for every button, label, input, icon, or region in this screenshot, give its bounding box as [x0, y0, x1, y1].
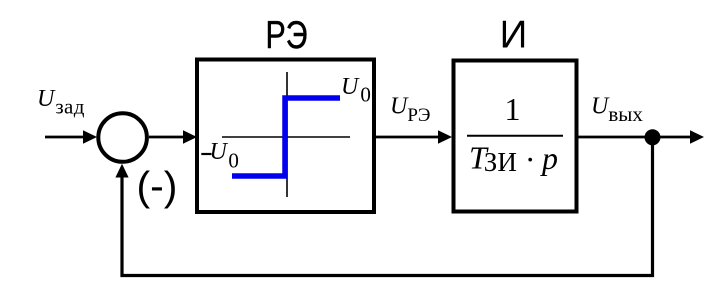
svg-text:1: 1 [505, 91, 521, 127]
svg-text:И: И [500, 14, 528, 57]
svg-text:РЭ: РЭ [266, 14, 308, 57]
svg-text:(-): (-) [137, 163, 178, 209]
